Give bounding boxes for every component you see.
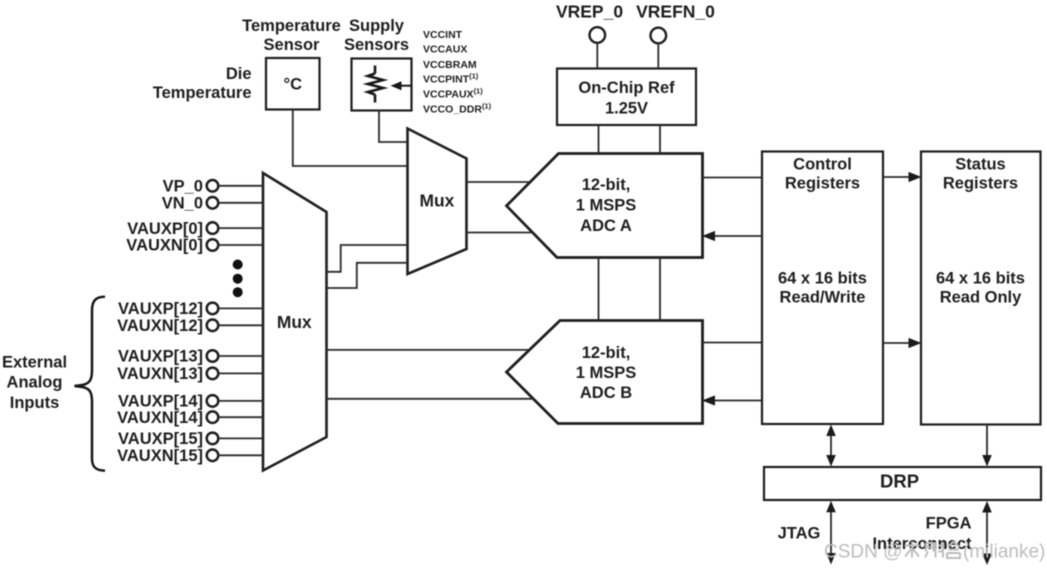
svg-text:VAUXN[15]: VAUXN[15] <box>117 447 203 465</box>
svg-text:1 MSPS: 1 MSPS <box>576 364 637 382</box>
svg-text:VCCPINT(1): VCCPINT(1) <box>423 71 479 85</box>
svg-text:Control: Control <box>793 155 852 173</box>
svg-text:VAUXP[15]: VAUXP[15] <box>118 430 203 448</box>
svg-text:1.25V: 1.25V <box>605 99 648 117</box>
svg-text:Mux: Mux <box>277 312 312 332</box>
svg-text:Registers: Registers <box>785 174 860 192</box>
svg-text:CSDN @: CSDN @ <box>824 542 902 563</box>
svg-text:Mux: Mux <box>420 191 455 211</box>
svg-text:Temperature: Temperature <box>153 84 252 102</box>
svg-text:VCCAUX: VCCAUX <box>423 44 467 56</box>
svg-text:VAUXN[14]: VAUXN[14] <box>117 409 203 427</box>
svg-text:12-bit,: 12-bit, <box>582 344 631 362</box>
svg-text:Analog: Analog <box>7 374 63 392</box>
svg-text:FPGA: FPGA <box>926 514 972 532</box>
svg-text:VAUXP[13]: VAUXP[13] <box>118 348 203 366</box>
svg-text:VAUXP[14]: VAUXP[14] <box>118 393 203 411</box>
svg-text:DRP: DRP <box>880 471 919 492</box>
svg-text:Supply: Supply <box>349 17 405 35</box>
svg-text:(milianke): (milianke) <box>963 542 1045 563</box>
svg-text:VAUXP[0]: VAUXP[0] <box>127 220 203 238</box>
svg-text:VREFN_0: VREFN_0 <box>636 2 715 22</box>
svg-text:VAUXN[13]: VAUXN[13] <box>117 365 203 383</box>
svg-text:VCCBRAM: VCCBRAM <box>423 59 477 71</box>
svg-text:1 MSPS: 1 MSPS <box>576 197 637 215</box>
svg-text:Registers: Registers <box>943 174 1018 192</box>
svg-text:Sensor: Sensor <box>264 36 321 54</box>
svg-text:64 x 16 bits: 64 x 16 bits <box>778 269 867 287</box>
svg-text:Sensors: Sensors <box>344 36 409 54</box>
svg-text:VCCO_DDR(1): VCCO_DDR(1) <box>423 101 492 115</box>
svg-text:VN_0: VN_0 <box>162 195 203 213</box>
svg-text:VCCPAUX(1): VCCPAUX(1) <box>423 87 483 101</box>
svg-text:°C: °C <box>284 76 303 94</box>
svg-text:On-Chip Ref: On-Chip Ref <box>578 79 675 97</box>
svg-text:64 x 16 bits: 64 x 16 bits <box>936 269 1025 287</box>
svg-text:Die: Die <box>226 65 252 83</box>
svg-text:VAUXP[12]: VAUXP[12] <box>118 300 203 318</box>
svg-text:VREP_0: VREP_0 <box>556 2 623 22</box>
svg-text:Inputs: Inputs <box>10 394 60 412</box>
svg-text:VAUXN[12]: VAUXN[12] <box>117 317 203 335</box>
svg-text:VP_0: VP_0 <box>163 178 203 196</box>
svg-text:VAUXN[0]: VAUXN[0] <box>126 237 203 255</box>
svg-text:12-bit,: 12-bit, <box>582 176 631 194</box>
svg-text:ADC B: ADC B <box>580 384 632 402</box>
svg-text:Read/Write: Read/Write <box>780 288 866 306</box>
svg-text:VCCINT: VCCINT <box>423 29 463 41</box>
svg-text:JTAG: JTAG <box>778 525 821 543</box>
svg-text:Temperature: Temperature <box>242 17 341 35</box>
svg-text:External: External <box>2 354 67 372</box>
svg-text:Status: Status <box>955 155 1005 173</box>
svg-text:Read Only: Read Only <box>940 288 1022 306</box>
svg-text:ADC A: ADC A <box>580 217 632 235</box>
